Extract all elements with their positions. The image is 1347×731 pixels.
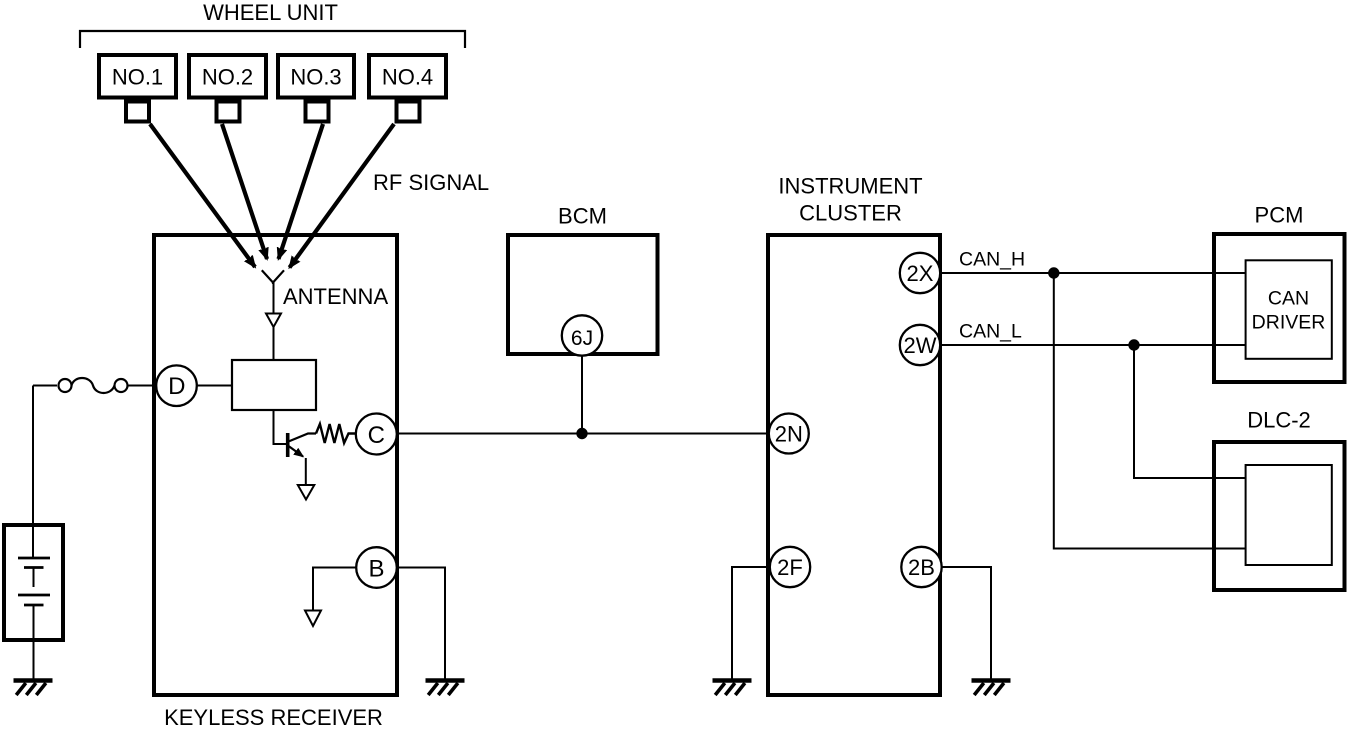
svg-text:DRIVER: DRIVER — [1252, 312, 1326, 334]
svg-text:6J: 6J — [571, 327, 593, 350]
svg-text:KEYLESS RECEIVER: KEYLESS RECEIVER — [164, 705, 383, 730]
svg-text:PCM: PCM — [1255, 203, 1304, 228]
svg-text:NO.2: NO.2 — [202, 65, 253, 90]
svg-text:BCM: BCM — [558, 204, 607, 229]
svg-text:WHEEL UNIT: WHEEL UNIT — [203, 0, 338, 25]
svg-text:DLC-2: DLC-2 — [1247, 408, 1311, 433]
svg-text:C: C — [368, 422, 385, 449]
svg-text:CAN: CAN — [1268, 288, 1309, 310]
svg-text:CAN_H: CAN_H — [959, 249, 1025, 271]
svg-text:NO.1: NO.1 — [112, 65, 163, 90]
svg-text:RF SIGNAL: RF SIGNAL — [373, 170, 489, 195]
svg-text:CLUSTER: CLUSTER — [799, 201, 902, 226]
svg-text:2B: 2B — [908, 555, 935, 580]
svg-text:NO.3: NO.3 — [290, 65, 341, 90]
svg-text:2X: 2X — [907, 261, 934, 286]
svg-text:NO.4: NO.4 — [382, 65, 433, 90]
svg-text:2W: 2W — [904, 333, 937, 358]
svg-text:2N: 2N — [775, 422, 803, 447]
svg-text:INSTRUMENT: INSTRUMENT — [778, 174, 922, 199]
svg-text:2F: 2F — [777, 555, 803, 580]
svg-text:B: B — [368, 556, 384, 583]
svg-text:D: D — [168, 373, 185, 400]
svg-text:CAN_L: CAN_L — [959, 321, 1022, 343]
svg-text:ANTENNA: ANTENNA — [283, 284, 388, 309]
